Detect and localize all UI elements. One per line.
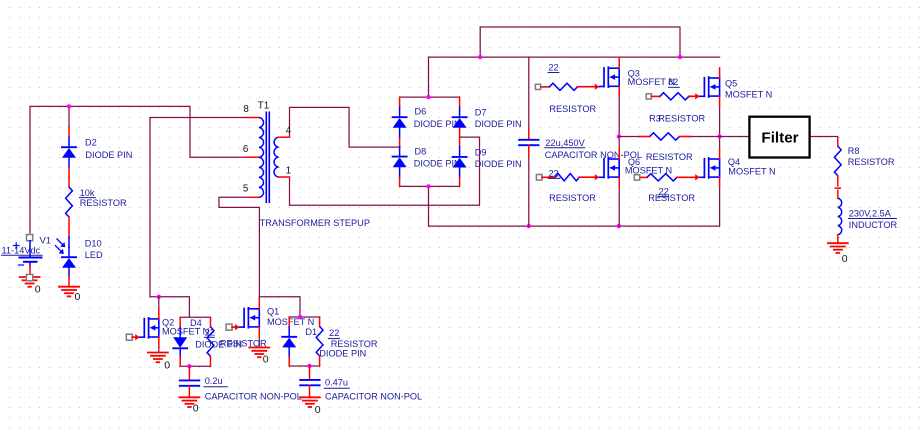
diode D8 (399, 146, 401, 149)
block Filter (749, 117, 809, 158)
resistor 10k (68, 176, 70, 187)
wire D4 network bottom rail (180, 365, 210, 367)
resistor 22 gate Q6 (536, 175, 542, 181)
junction bridge bottom (426, 184, 430, 188)
capacitor 0.2u (188, 366, 190, 380)
svg-text:8: 8 (243, 104, 249, 115)
wire DC+ rail (429, 56, 720, 58)
svg-text:R8: R8 (848, 146, 860, 156)
transformer T1 secondary winding (274, 137, 279, 177)
wire D1 network top rail (289, 316, 319, 318)
wire Q6 source to DC- rail (618, 188, 620, 227)
junction 0.47u cap tap (307, 364, 311, 368)
svg-text:Q5: Q5 (725, 78, 737, 88)
svg-text:0: 0 (842, 253, 848, 265)
svg-text:RESISTOR: RESISTOR (331, 339, 378, 349)
ground Q1 (249, 347, 269, 349)
wire left midpoint to R3 (619, 136, 640, 138)
svg-text:T1: T1 (258, 100, 269, 111)
svg-text:LED: LED (85, 250, 103, 260)
svg-text:RESISTOR: RESISTOR (549, 193, 596, 203)
wire transformer pin5 to Q1 drain net (219, 197, 300, 317)
capacitor 22u 450V (528, 129, 530, 140)
diode D2 (68, 127, 70, 137)
svg-text:230V,2.5A: 230V,2.5A (849, 208, 892, 218)
svg-text:0: 0 (75, 291, 81, 303)
wire bridge bottom to DC- rail (428, 186, 430, 226)
svg-text:RESISTOR: RESISTOR (848, 157, 895, 167)
svg-text:RESISTOR: RESISTOR (646, 152, 693, 162)
svg-text:0.47u: 0.47u (325, 377, 348, 387)
ground Q2 (148, 352, 168, 354)
wire filter cap column (528, 57, 530, 129)
svg-text:0: 0 (315, 404, 321, 416)
svg-text:INDUCTOR: INDUCTOR (849, 220, 898, 230)
junction rail/D2 (67, 104, 71, 108)
wire Q1 source to ground (258, 337, 260, 347)
wire bridge bottom (400, 185, 460, 187)
mosfet Q1 (226, 324, 232, 330)
resistor R3 midpoint (640, 136, 650, 138)
junction bridge top (426, 95, 430, 99)
diode D1 (288, 317, 290, 327)
svg-text:5: 5 (243, 184, 249, 195)
diode D6 (399, 97, 401, 107)
transformer T1 primary winding (259, 118, 264, 198)
inductor 230V 2.5A (837, 190, 839, 198)
diode D4 (179, 317, 181, 327)
resistor 82 gate Q5 (646, 94, 651, 99)
wire bridge top (400, 96, 460, 98)
transformer T1 primary pins (246, 117, 259, 119)
svg-text:MOSFET N: MOSFET N (628, 77, 675, 87)
svg-text:RESISTOR: RESISTOR (648, 193, 695, 203)
junction DC+ rail right (678, 55, 682, 59)
transformer T1 secondary pins (279, 136, 290, 138)
svg-text:0: 0 (164, 359, 170, 371)
ground 0.47u (300, 396, 320, 398)
svg-text:DIODE PIN: DIODE PIN (475, 159, 522, 169)
svg-text:Q1: Q1 (267, 307, 279, 317)
wire D1 network bottom rail (289, 365, 319, 367)
svg-text:MOSFET N: MOSFET N (162, 326, 209, 336)
resistor 22 snubber Q2 (210, 317, 212, 327)
svg-text:0: 0 (193, 403, 199, 415)
wire midpoint to Filter block (720, 136, 749, 138)
mosfet Q5 (700, 95, 705, 97)
pin tick R8/inductor (835, 187, 840, 189)
svg-text:CAPACITOR NON-POL: CAPACITOR NON-POL (205, 391, 302, 401)
svg-text:MOSFET N: MOSFET N (728, 167, 775, 177)
junction DC+ rail left (478, 55, 482, 59)
svg-text:Filter: Filter (761, 130, 798, 147)
wire Q2 drain stub (158, 297, 160, 309)
svg-text:0: 0 (263, 353, 269, 365)
svg-text:V1: V1 (40, 235, 51, 245)
svg-text:0: 0 (35, 283, 41, 295)
junction left midpoint (617, 134, 621, 138)
svg-text:22: 22 (329, 328, 339, 338)
wire battery positive rail (30, 106, 246, 233)
ground LED (59, 286, 79, 288)
svg-text:D7: D7 (475, 108, 487, 118)
junction DC- rail at C filter (527, 224, 531, 228)
wire DC- rail (429, 187, 720, 226)
mosfet Q3 (600, 86, 605, 88)
svg-text:D4: D4 (190, 318, 202, 328)
wire Q2 source to ground (158, 348, 160, 353)
svg-text:CAPACITOR NON-POL: CAPACITOR NON-POL (325, 391, 422, 401)
svg-text:22u,450V: 22u,450V (545, 138, 585, 148)
svg-text:DIODE PIN: DIODE PIN (85, 150, 132, 160)
capacitor 0.47u (309, 366, 311, 380)
ground R8 (828, 242, 848, 244)
svg-text:DIODE PIN: DIODE PIN (475, 119, 522, 129)
svg-text:D10: D10 (85, 239, 102, 249)
mosfet Q4 (700, 176, 705, 178)
junction 0.2u cap tap (187, 364, 191, 368)
wire top loop (480, 27, 680, 57)
svg-text:TRANSFORMER STEPUP: TRANSFORMER STEPUP (260, 218, 370, 228)
svg-text:DIODE PIN: DIODE PIN (319, 349, 366, 359)
wire Q4 drain from midpoint (719, 137, 721, 149)
wire transformer pin8 to Q2 drain net (150, 118, 246, 318)
svg-text:22: 22 (205, 328, 215, 338)
wire D2 branch from rail (68, 106, 70, 128)
junction DC- rail at Q6 (617, 224, 621, 228)
diode D9 (459, 137, 461, 147)
svg-text:10k: 10k (80, 188, 95, 198)
mosfet Q6 (600, 176, 605, 178)
transformer T1 core (265, 112, 267, 202)
junction D1 rail (298, 315, 302, 319)
battery polarity marks (14, 245, 20, 247)
svg-text:MOSFET N: MOSFET N (625, 165, 672, 175)
svg-text:RESISTOR: RESISTOR (80, 198, 127, 208)
svg-text:22: 22 (549, 169, 559, 179)
svg-text:MOSFET N: MOSFET N (725, 89, 772, 99)
wire Filter block to R8 (809, 137, 838, 140)
svg-text:RESISTOR: RESISTOR (549, 104, 596, 114)
svg-text:RESISTOR: RESISTOR (658, 114, 705, 124)
svg-text:6: 6 (243, 144, 249, 155)
LED arrows (57, 239, 63, 245)
wire R3 to right midpoint (690, 136, 720, 138)
LED D10 (68, 237, 70, 247)
resistor 22 gate Q3 (535, 84, 540, 89)
resistor R8 (837, 139, 839, 146)
ground 0.2u (179, 396, 199, 398)
wire transformer pin4 to bridge left input (290, 107, 400, 147)
junction right midpoint (717, 134, 721, 138)
wire Q3 source to midpoint (618, 97, 620, 137)
svg-text:D6: D6 (415, 107, 427, 117)
svg-text:D9: D9 (475, 148, 487, 158)
svg-text:0.2u: 0.2u (205, 376, 223, 386)
svg-text:22: 22 (548, 63, 558, 73)
svg-text:1: 1 (286, 166, 291, 177)
wire D4 network top rail (180, 316, 210, 318)
resistor 22 gate Q4 (634, 175, 639, 180)
diode D7 (459, 97, 461, 107)
svg-text:MOSFET N: MOSFET N (267, 317, 314, 327)
wire transformer pin1 to bridge right input (290, 137, 480, 205)
svg-text:DIODE PIN: DIODE PIN (195, 340, 242, 350)
ground battery (20, 276, 40, 278)
mosfet Q2 (126, 334, 132, 340)
svg-text:4: 4 (286, 125, 292, 136)
wire Q5 source to midpoint (719, 107, 721, 137)
resistor 22 snubber Q1 (319, 317, 321, 326)
battery V1 (27, 235, 33, 241)
svg-text:D2: D2 (85, 138, 97, 148)
svg-text:D1: D1 (305, 327, 317, 337)
svg-text:D8: D8 (415, 146, 427, 156)
svg-text:11-14Vdc: 11-14Vdc (2, 245, 41, 255)
wire Q6 drain from midpoint (618, 137, 620, 149)
junction Q2 drain (157, 295, 161, 299)
wire bridge top to DC+ rail (428, 57, 430, 97)
